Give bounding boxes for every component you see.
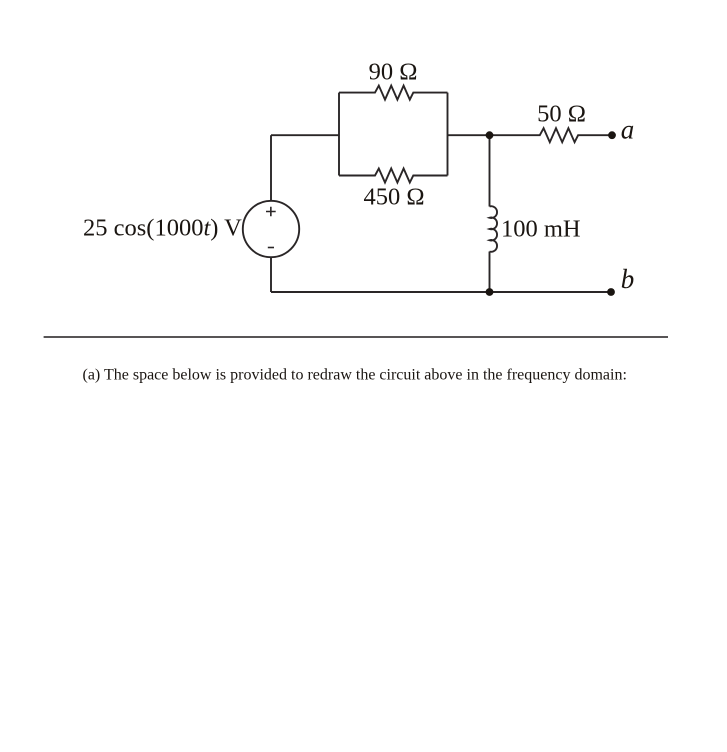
resistor R 90ohm xyxy=(339,86,448,100)
separator rule xyxy=(44,336,668,338)
wire inductor bottom xyxy=(489,252,491,293)
inductor L 100mH xyxy=(490,206,498,252)
svg-text:b: b xyxy=(621,264,635,294)
svg-text:25 cos(1000t) V: 25 cos(1000t) V xyxy=(83,215,242,242)
resistor R 450ohm xyxy=(339,169,448,183)
wire inductor top xyxy=(489,135,491,206)
wire box-right xyxy=(447,93,449,176)
svg-text:(a) The space below is provide: (a) The space below is provided to redra… xyxy=(83,367,627,384)
wire bottom xyxy=(271,291,612,293)
wire box-left xyxy=(338,93,340,176)
svg-text:100 mH: 100 mH xyxy=(501,215,581,242)
node junction top xyxy=(486,131,494,139)
terminal a dot xyxy=(608,131,616,139)
wire source-to-bottom xyxy=(270,257,272,292)
svg-text:450 Ω: 450 Ω xyxy=(363,184,424,211)
wire left vertical xyxy=(270,135,272,201)
svg-text:90 Ω: 90 Ω xyxy=(369,59,418,86)
node junction bottom xyxy=(486,288,494,296)
svg-text:a: a xyxy=(621,115,635,145)
voltage source circle xyxy=(243,201,299,257)
wire middle-right stub xyxy=(448,134,490,136)
wire middle-left xyxy=(271,134,339,136)
resistor R 50ohm xyxy=(490,128,613,142)
source minus sign xyxy=(268,247,274,249)
svg-text:50 Ω: 50 Ω xyxy=(537,100,586,127)
terminal b dot xyxy=(607,288,615,296)
source plus sign xyxy=(266,207,276,248)
